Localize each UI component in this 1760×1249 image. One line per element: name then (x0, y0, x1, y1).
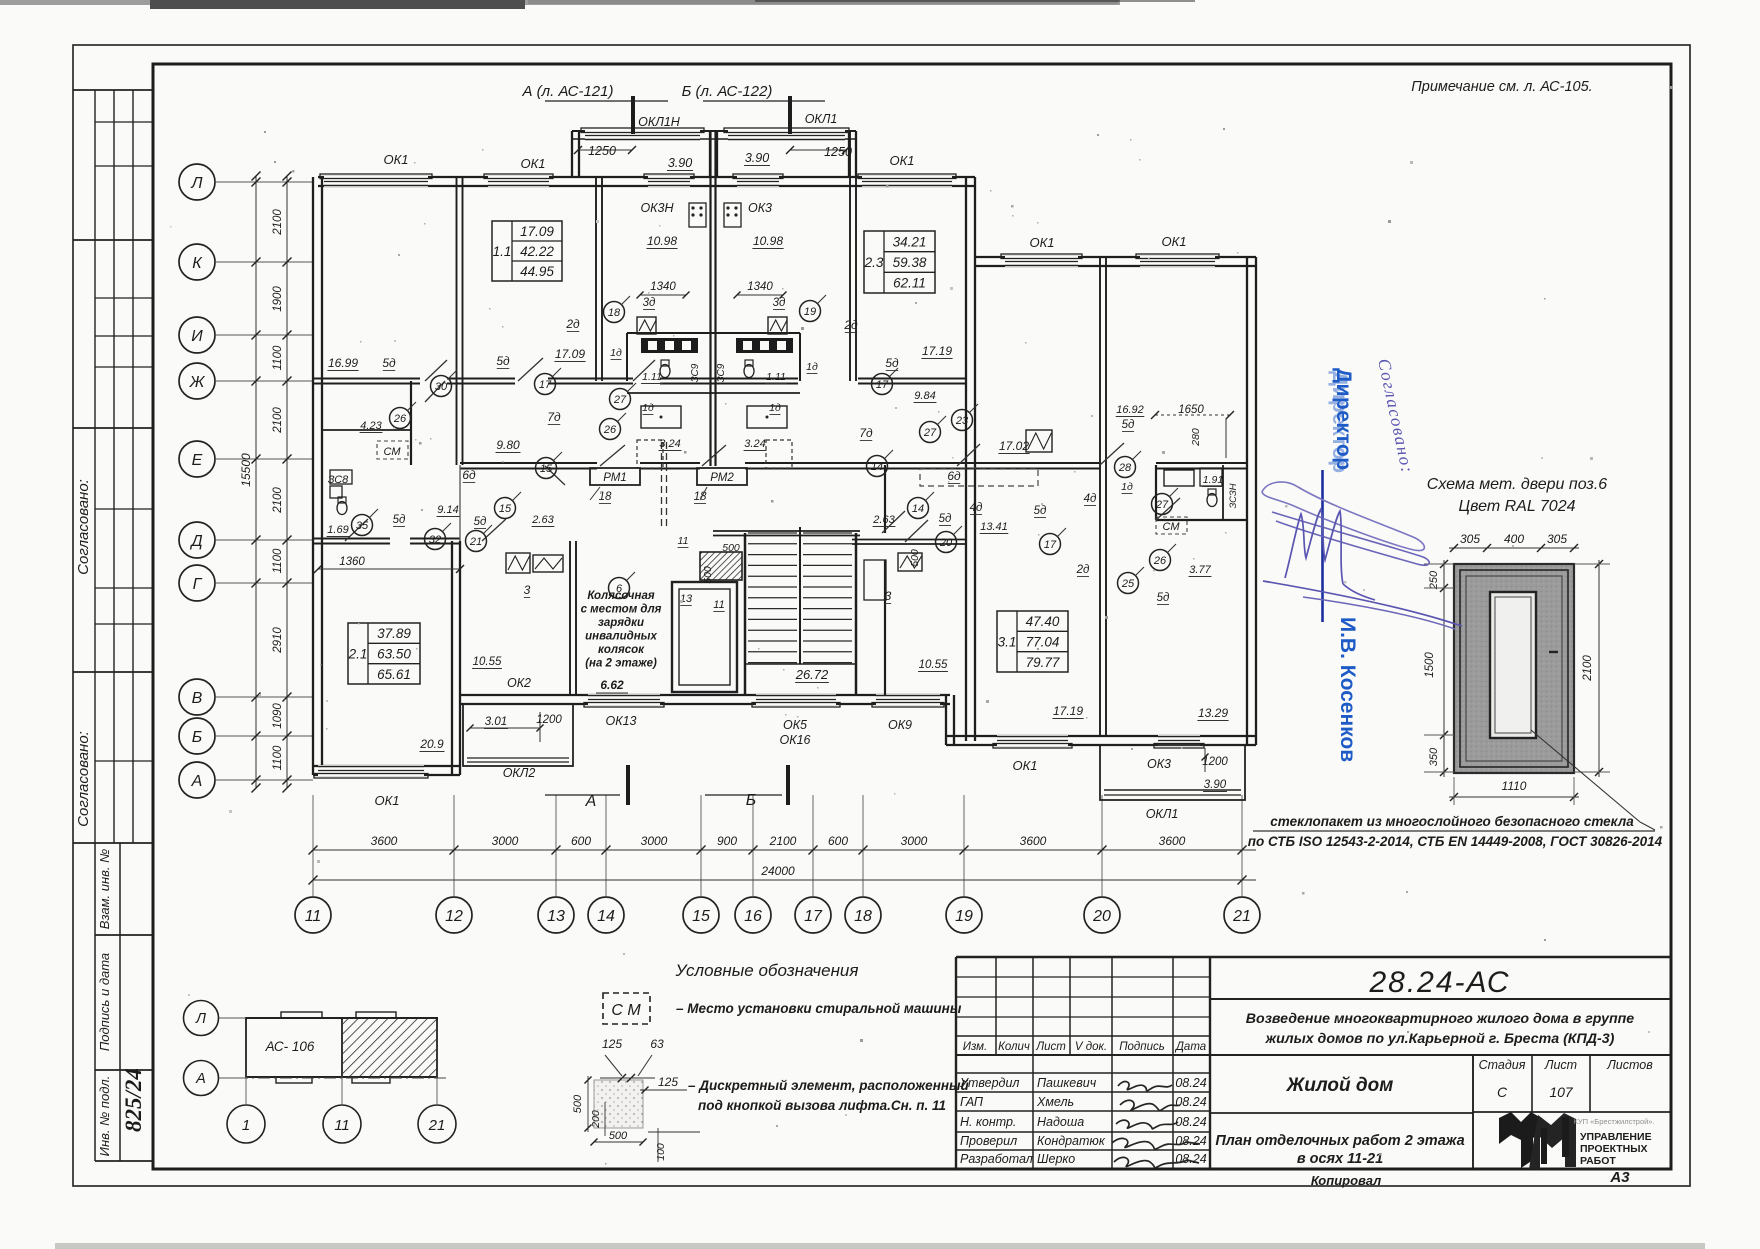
svg-text:10.98: 10.98 (753, 234, 783, 248)
svg-text:35: 35 (356, 520, 369, 532)
svg-text:77.04: 77.04 (1026, 635, 1060, 650)
svg-text:под кнопкой вызова лифта.Сн. п: под кнопкой вызова лифта.Сн. п. 11 (698, 1098, 946, 1113)
svg-text:5д: 5д (1157, 592, 1170, 604)
svg-text:2.63: 2.63 (531, 514, 554, 526)
svg-text:Е: Е (192, 452, 203, 469)
svg-text:3600: 3600 (1020, 834, 1047, 848)
svg-text:1д: 1д (1121, 481, 1133, 493)
svg-text:500: 500 (909, 549, 921, 567)
svg-text:Г: Г (193, 576, 203, 593)
svg-text:62.11: 62.11 (893, 276, 926, 291)
svg-text:Инв. № подл.: Инв. № подл. (97, 1076, 112, 1157)
svg-text:3д: 3д (773, 297, 786, 309)
svg-text:ОК1: ОК1 (374, 793, 399, 808)
svg-text:СМ: СМ (1163, 521, 1181, 533)
svg-text:С: С (1497, 1084, 1508, 1100)
svg-text:79.77: 79.77 (1026, 655, 1060, 670)
svg-text:с местом для: с местом для (581, 604, 662, 616)
svg-text:1500: 1500 (1424, 652, 1436, 678)
svg-text:по СТБ ISO 12543-2-2014, СТБ E: по СТБ ISO 12543-2-2014, СТБ EN 14449-20… (1248, 834, 1663, 849)
svg-text:1360: 1360 (339, 556, 365, 568)
svg-text:18: 18 (608, 307, 621, 319)
svg-text:Согласовано:: Согласовано: (75, 731, 92, 827)
svg-text:30: 30 (435, 381, 448, 393)
svg-text:Л: Л (191, 175, 203, 192)
svg-text:ОКЛ1Н: ОКЛ1Н (638, 115, 681, 129)
svg-text:3000: 3000 (901, 834, 928, 848)
svg-text:РМ2: РМ2 (710, 472, 734, 484)
svg-text:Лист: Лист (1035, 1041, 1066, 1053)
svg-text:Изм.: Изм. (963, 1041, 988, 1053)
svg-text:1090: 1090 (272, 703, 284, 729)
svg-text:37.89: 37.89 (377, 626, 411, 641)
svg-text:Ж: Ж (189, 374, 206, 391)
svg-text:РАБОТ: РАБОТ (1580, 1155, 1616, 1167)
svg-text:17: 17 (1044, 539, 1057, 551)
svg-text:15: 15 (540, 463, 553, 475)
svg-text:1340: 1340 (747, 281, 773, 293)
svg-text:2д: 2д (565, 317, 580, 331)
svg-text:27: 27 (613, 394, 627, 406)
svg-text:3д: 3д (643, 297, 656, 309)
svg-text:А: А (195, 1071, 206, 1087)
svg-text:23: 23 (955, 415, 969, 427)
svg-text:5д: 5д (1034, 505, 1047, 517)
svg-text:1340: 1340 (650, 281, 676, 293)
svg-text:ЗСЗН: ЗСЗН (1228, 483, 1239, 508)
svg-text:2100: 2100 (272, 209, 284, 236)
svg-text:А (л. АС-121): А (л. АС-121) (522, 83, 614, 100)
svg-text:21: 21 (428, 1117, 446, 1134)
svg-text:20: 20 (939, 537, 953, 549)
svg-text:65.61: 65.61 (377, 667, 411, 682)
svg-text:5д: 5д (393, 514, 406, 526)
svg-text:ЗС9: ЗС9 (690, 363, 701, 382)
svg-text:2100: 2100 (1582, 655, 1594, 682)
svg-text:17.19: 17.19 (1053, 704, 1083, 718)
svg-text:V док.: V док. (1075, 1041, 1107, 1053)
svg-text:17: 17 (539, 379, 552, 391)
svg-text:20: 20 (1092, 908, 1111, 925)
svg-text:5д: 5д (474, 516, 487, 528)
svg-text:63: 63 (650, 1037, 664, 1051)
svg-text:20.9: 20.9 (419, 737, 444, 751)
svg-text:28.24-АС: 28.24-АС (1368, 966, 1510, 999)
svg-text:13: 13 (680, 593, 693, 605)
svg-text:Дата: Дата (1174, 1041, 1206, 1053)
svg-text:3.90: 3.90 (668, 156, 692, 170)
svg-text:3600: 3600 (1159, 834, 1186, 848)
svg-text:– Дискретный элемент, располож: – Дискретный элемент, расположенный (688, 1078, 970, 1093)
svg-text:28: 28 (1118, 462, 1132, 474)
svg-text:21: 21 (469, 536, 482, 548)
svg-text:3000: 3000 (641, 834, 668, 848)
svg-text:А: А (585, 793, 597, 810)
svg-text:Схема мет. двери поз.6: Схема мет. двери поз.6 (1427, 476, 1608, 493)
svg-text:500: 500 (722, 542, 740, 554)
svg-text:3.01: 3.01 (485, 716, 507, 728)
svg-text:1д: 1д (642, 402, 654, 414)
svg-text:5д: 5д (496, 354, 510, 368)
svg-text:4д: 4д (970, 502, 983, 514)
svg-text:Разработал: Разработал (960, 1152, 1033, 1166)
svg-text:С М: С М (611, 1002, 641, 1019)
svg-text:3.24: 3.24 (744, 438, 765, 450)
svg-text:ОК1: ОК1 (383, 152, 408, 167)
svg-text:Проверил: Проверил (960, 1134, 1017, 1148)
svg-text:2100: 2100 (272, 487, 284, 514)
svg-text:21: 21 (1232, 908, 1251, 925)
svg-text:17.09: 17.09 (555, 347, 585, 361)
svg-text:500: 500 (702, 566, 714, 584)
svg-text:Кондратюк: Кондратюк (1037, 1134, 1106, 1148)
svg-text:400: 400 (1504, 532, 1524, 546)
svg-text:АС- 106: АС- 106 (265, 1039, 315, 1054)
svg-text:9.80: 9.80 (496, 438, 520, 452)
svg-text:27: 27 (1155, 499, 1169, 511)
svg-text:350: 350 (1428, 747, 1440, 766)
svg-text:1.69: 1.69 (327, 524, 348, 536)
svg-text:Копировал: Копировал (1311, 1173, 1381, 1188)
svg-text:25: 25 (1121, 578, 1135, 590)
svg-text:В: В (192, 690, 203, 707)
svg-text:305: 305 (1547, 532, 1567, 546)
svg-text:5д: 5д (885, 356, 899, 370)
svg-text:825/24: 825/24 (121, 1068, 146, 1132)
svg-text:в осях 11-21: в осях 11-21 (1297, 1151, 1383, 1167)
svg-text:ЗС9: ЗС9 (716, 363, 727, 382)
svg-text:Примечание см. л. АС-105.: Примечание см. л. АС-105. (1411, 79, 1592, 95)
svg-text:13.29: 13.29 (1198, 706, 1228, 720)
svg-text:100: 100 (655, 1143, 667, 1161)
svg-text:08.24: 08.24 (1175, 1095, 1206, 1109)
svg-text:16: 16 (744, 908, 762, 925)
svg-text:08.24: 08.24 (1175, 1152, 1206, 1166)
svg-text:125: 125 (658, 1075, 678, 1089)
svg-text:ОК1: ОК1 (520, 156, 545, 171)
svg-text:19: 19 (955, 908, 973, 925)
svg-text:1250: 1250 (588, 144, 616, 158)
svg-text:Д: Д (189, 533, 202, 550)
svg-text:500: 500 (572, 1094, 584, 1113)
svg-text:10.98: 10.98 (647, 234, 677, 248)
svg-text:7д: 7д (859, 426, 873, 440)
svg-text:17.02: 17.02 (999, 439, 1029, 453)
svg-text:Согласовано:: Согласовано: (75, 479, 92, 575)
svg-text:зарядки: зарядки (598, 617, 644, 629)
svg-text:2.1: 2.1 (348, 647, 368, 662)
svg-text:Условные обозначения: Условные обозначения (675, 961, 859, 980)
svg-text:2д: 2д (843, 318, 858, 332)
svg-text:Жилой дом: Жилой дом (1286, 1075, 1394, 1096)
svg-text:59.38: 59.38 (893, 255, 927, 270)
svg-text:СМ: СМ (384, 446, 402, 458)
svg-text:08.24: 08.24 (1175, 1134, 1206, 1148)
svg-text:И.В. Косенков: И.В. Косенков (1336, 617, 1359, 762)
svg-text:15: 15 (692, 908, 710, 925)
svg-text:11: 11 (713, 599, 724, 611)
svg-text:26: 26 (603, 424, 617, 436)
svg-text:08.24: 08.24 (1175, 1115, 1206, 1129)
svg-text:250: 250 (1428, 570, 1440, 590)
svg-text:А3: А3 (1609, 1169, 1630, 1186)
svg-text:ОК9: ОК9 (888, 718, 912, 732)
svg-text:1д: 1д (610, 347, 622, 359)
svg-text:18: 18 (854, 908, 872, 925)
svg-text:12: 12 (445, 908, 463, 925)
svg-text:1650: 1650 (1178, 404, 1204, 416)
svg-text:Пашкевич: Пашкевич (1037, 1076, 1097, 1090)
svg-text:ПРОЕКТНЫХ: ПРОЕКТНЫХ (1580, 1143, 1648, 1155)
svg-text:4.23: 4.23 (360, 420, 382, 432)
svg-text:125: 125 (602, 1037, 622, 1051)
svg-text:13.41: 13.41 (980, 521, 1008, 533)
svg-text:900: 900 (717, 834, 737, 848)
svg-text:К: К (192, 255, 203, 272)
svg-text:1.11: 1.11 (766, 371, 786, 383)
svg-text:5д: 5д (382, 356, 396, 370)
svg-text:17: 17 (804, 908, 823, 925)
svg-text:305: 305 (1460, 532, 1480, 546)
svg-text:2910: 2910 (272, 627, 284, 654)
svg-text:27: 27 (923, 427, 937, 439)
svg-text:(на 2 этаже): (на 2 этаже) (585, 658, 657, 670)
svg-text:14: 14 (912, 503, 924, 515)
svg-text:Возведение многоквартирного жи: Возведение многоквартирного жилого дома … (1246, 1011, 1635, 1027)
svg-text:Подпись и дата: Подпись и дата (97, 953, 112, 1051)
svg-text:Директор: Директор (1328, 371, 1351, 474)
svg-text:5д: 5д (939, 513, 952, 525)
svg-text:10.55: 10.55 (919, 659, 948, 671)
svg-text:3: 3 (885, 589, 892, 603)
svg-text:3000: 3000 (492, 834, 519, 848)
svg-text:11: 11 (334, 1117, 350, 1134)
svg-text:ОК3: ОК3 (1147, 757, 1171, 771)
svg-text:14: 14 (871, 461, 883, 473)
svg-text:26: 26 (393, 413, 407, 425)
svg-text:3.90: 3.90 (1204, 779, 1227, 791)
svg-text:2.63: 2.63 (872, 514, 895, 526)
svg-text:34.21: 34.21 (893, 234, 927, 249)
svg-text:ОК3Н: ОК3Н (640, 201, 674, 215)
svg-text:Б: Б (746, 792, 756, 809)
svg-text:08.24: 08.24 (1175, 1076, 1206, 1090)
svg-text:1100: 1100 (272, 548, 284, 573)
svg-text:1.11: 1.11 (642, 371, 662, 383)
svg-text:2.3: 2.3 (864, 255, 884, 270)
svg-text:10.55: 10.55 (473, 656, 502, 668)
svg-text:19: 19 (804, 306, 816, 318)
svg-text:42.22: 42.22 (520, 244, 554, 259)
svg-text:ОК13: ОК13 (606, 714, 637, 728)
svg-text:Согласовано:: Согласовано: (1374, 357, 1418, 476)
svg-text:Б (л. АС-122): Б (л. АС-122) (682, 83, 773, 100)
svg-text:Лист: Лист (1544, 1058, 1577, 1072)
svg-text:Хмель: Хмель (1036, 1095, 1074, 1109)
svg-text:16.92: 16.92 (1116, 404, 1144, 416)
svg-text:3600: 3600 (371, 834, 398, 848)
svg-text:ОК1: ОК1 (889, 153, 914, 168)
svg-text:2100: 2100 (769, 834, 797, 848)
svg-text:Б: Б (192, 729, 202, 746)
svg-text:5д: 5д (1122, 419, 1135, 431)
svg-text:Взам. инв. №: Взам. инв. № (97, 849, 112, 929)
svg-text:Л: Л (195, 1011, 206, 1027)
svg-text:1.1: 1.1 (493, 244, 512, 259)
svg-text:4д: 4д (1084, 493, 1097, 505)
svg-text:1900: 1900 (272, 286, 284, 312)
svg-text:2100: 2100 (272, 407, 284, 434)
svg-text:3.24: 3.24 (659, 438, 680, 450)
svg-text:ОК1: ОК1 (1012, 758, 1037, 773)
svg-text:3: 3 (524, 583, 531, 597)
svg-text:1д: 1д (806, 361, 818, 373)
svg-text:600: 600 (828, 834, 848, 848)
svg-text:47.40: 47.40 (1026, 614, 1060, 629)
svg-text:6д: 6д (947, 469, 961, 483)
svg-text:17: 17 (876, 379, 889, 391)
svg-text:И: И (191, 328, 203, 345)
svg-text:3.1: 3.1 (998, 635, 1017, 650)
svg-text:44.95: 44.95 (520, 264, 554, 279)
svg-text:ОКЛ1: ОКЛ1 (805, 112, 838, 126)
svg-text:15500: 15500 (239, 453, 253, 487)
svg-text:УПРАВЛЕНИЕ: УПРАВЛЕНИЕ (1580, 1131, 1652, 1143)
svg-text:1200: 1200 (1202, 756, 1228, 768)
svg-text:А: А (191, 773, 203, 790)
svg-text:6д: 6д (462, 468, 476, 482)
svg-text:26.72: 26.72 (795, 667, 829, 682)
svg-text:План отделочных работ 2 этажа: План отделочных работ 2 этажа (1215, 1133, 1464, 1149)
svg-text:1100: 1100 (272, 345, 284, 370)
svg-text:1110: 1110 (1502, 779, 1527, 793)
svg-text:11: 11 (678, 535, 689, 547)
svg-text:ОКЛ2: ОКЛ2 (503, 766, 536, 780)
svg-text:9.14: 9.14 (437, 504, 458, 516)
svg-text:9.84: 9.84 (914, 390, 935, 402)
svg-text:ГАП: ГАП (960, 1095, 984, 1109)
svg-text:3.77: 3.77 (1189, 564, 1211, 576)
svg-text:ОК16: ОК16 (780, 733, 811, 747)
svg-text:Колич: Колич (998, 1041, 1030, 1053)
svg-text:ОК5: ОК5 (783, 718, 807, 732)
svg-text:17.09: 17.09 (520, 224, 554, 239)
svg-text:3.90: 3.90 (745, 151, 769, 165)
svg-text:КУП «Брестжилстрой».: КУП «Брестжилстрой». (1573, 1117, 1654, 1126)
svg-text:6.62: 6.62 (600, 678, 624, 692)
svg-text:600: 600 (571, 834, 591, 848)
svg-text:– Место установки стиральной м: – Место установки стиральной машины (676, 1001, 962, 1016)
svg-text:26: 26 (1153, 555, 1167, 567)
svg-text:11: 11 (305, 908, 322, 925)
svg-text:107: 107 (1549, 1084, 1574, 1100)
svg-text:1д: 1д (769, 402, 781, 414)
svg-text:18: 18 (694, 491, 707, 503)
svg-text:6: 6 (616, 583, 623, 595)
svg-text:Стадия: Стадия (1479, 1058, 1526, 1072)
svg-text:32: 32 (429, 534, 441, 546)
svg-text:ОКЛ1: ОКЛ1 (1146, 807, 1179, 821)
svg-text:13: 13 (547, 908, 565, 925)
svg-text:17.19: 17.19 (922, 344, 952, 358)
svg-text:ОК2: ОК2 (507, 676, 531, 690)
svg-text:Н. контр.: Н. контр. (960, 1115, 1016, 1129)
svg-text:7д: 7д (547, 410, 561, 424)
svg-text:1.91: 1.91 (1203, 474, 1223, 486)
svg-text:1250: 1250 (824, 145, 852, 159)
svg-text:ОК1: ОК1 (1029, 235, 1054, 250)
svg-text:Листов: Листов (1606, 1058, 1653, 1072)
svg-text:ЗС8: ЗС8 (328, 474, 349, 486)
svg-text:РМ1: РМ1 (603, 472, 627, 484)
svg-text:200: 200 (590, 1110, 602, 1129)
svg-text:14: 14 (597, 908, 615, 925)
svg-text:Надоша: Надоша (1037, 1115, 1084, 1129)
svg-text:колясок: колясок (598, 644, 645, 656)
svg-text:16.99: 16.99 (328, 356, 358, 370)
svg-text:63.50: 63.50 (377, 647, 411, 662)
svg-text:ОК3: ОК3 (748, 201, 772, 215)
svg-text:жилых домов по ул.Карьерной г: жилых домов по ул.Карьерной г. Бреста (К… (1265, 1031, 1615, 1047)
svg-text:стеклопакет из многослойного б: стеклопакет из многослойного безопасного… (1270, 814, 1634, 829)
svg-text:24000: 24000 (760, 864, 795, 878)
svg-text:Шерко: Шерко (1037, 1152, 1075, 1166)
svg-text:2д: 2д (1076, 564, 1090, 576)
svg-text:1100: 1100 (272, 745, 284, 770)
svg-text:Цвет RAL 7024: Цвет RAL 7024 (1459, 498, 1576, 515)
svg-text:инвалидных: инвалидных (585, 631, 657, 643)
svg-text:15: 15 (499, 503, 512, 515)
svg-text:280: 280 (1190, 428, 1202, 447)
svg-text:ОК1: ОК1 (1161, 234, 1186, 249)
svg-text:1: 1 (242, 1117, 250, 1134)
svg-text:Подпись: Подпись (1119, 1041, 1165, 1053)
svg-text:1200: 1200 (536, 714, 562, 726)
svg-text:500: 500 (609, 1130, 628, 1142)
